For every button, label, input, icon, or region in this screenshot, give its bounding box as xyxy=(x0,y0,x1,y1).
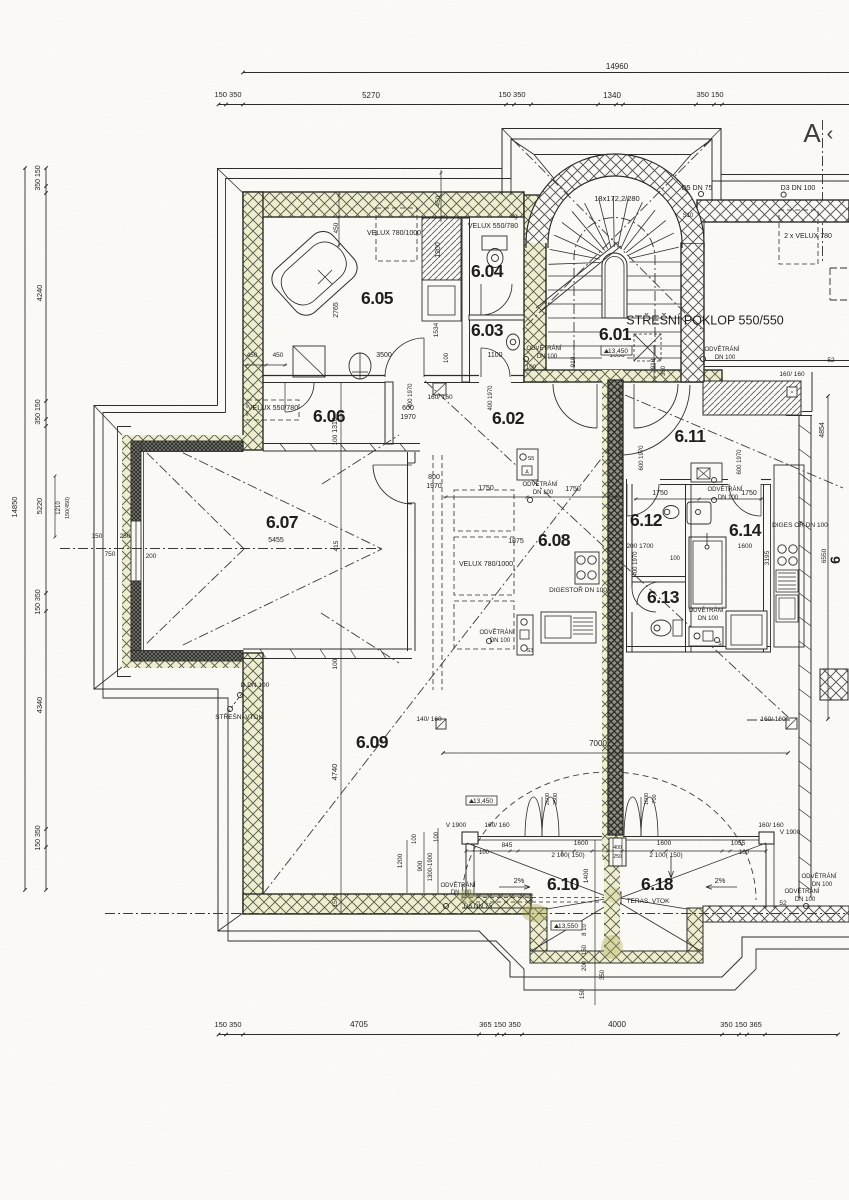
wall hatched stair bottom band xyxy=(524,370,722,382)
misc vent circles xyxy=(523,356,528,361)
wall hatched west band 6.09 xyxy=(243,653,263,913)
terrace drain box xyxy=(611,892,621,904)
wall right block east xyxy=(798,415,800,898)
door 6.14 xyxy=(729,484,761,516)
wall 6.06 east xyxy=(385,382,393,444)
french door arcs right xyxy=(624,797,658,837)
door 6.13 xyxy=(632,588,656,612)
level boxes xyxy=(601,346,632,355)
wall cluster top xyxy=(660,479,728,481)
velux dashed 2x right top xyxy=(779,210,818,264)
dimension line left segments xyxy=(45,168,47,890)
wc 6.04 xyxy=(482,236,507,250)
wall cluster west xyxy=(626,479,628,652)
vent box S3 xyxy=(517,615,533,655)
washbasin 6.12/6.14 xyxy=(687,502,711,524)
wall 6.11 top hatched xyxy=(703,381,801,415)
roof window box 140/160 right xyxy=(786,718,797,729)
terrace post left xyxy=(462,832,478,844)
bay wall dark bottom xyxy=(131,651,243,662)
streshni vtok symbol xyxy=(228,692,243,712)
velux dashed 6.05 xyxy=(376,208,417,261)
arrow down 6.18 xyxy=(669,856,674,878)
door 6.03 to hall xyxy=(481,348,510,377)
door 6.12/6.13 wall xyxy=(637,582,660,605)
door 6.04 xyxy=(481,284,512,315)
roof hip 6.07 large chevron xyxy=(183,453,382,549)
wall 6.05/6.04 xyxy=(462,218,470,382)
terrace side walls xyxy=(465,844,467,896)
terrace slope diagonals xyxy=(467,843,611,898)
stair enclosure arch hatched wall xyxy=(526,154,704,243)
dim line hall 1750 xyxy=(443,496,619,498)
wall hatched top band xyxy=(243,192,524,217)
roof hip 6.07 corner stubs xyxy=(322,435,399,484)
bay wall dark top xyxy=(131,441,243,452)
wall 6.07 east xyxy=(407,452,409,651)
shower tray 6.05 bottom xyxy=(293,346,325,377)
right vertical dim xyxy=(827,396,829,719)
wall 6.12/6.13 xyxy=(632,576,685,578)
window dim arrows left of terrace xyxy=(406,840,408,893)
wc 6.13 xyxy=(651,620,671,636)
stair treads radial xyxy=(549,263,600,265)
wall 6.06/6.07 horizontal xyxy=(263,443,420,445)
terrace dim line xyxy=(466,850,766,852)
stair walking line dash-dot xyxy=(574,218,655,379)
roof eave outline outer xyxy=(218,129,849,406)
kitchen rack right xyxy=(776,570,798,592)
roof window box 160/160 hall xyxy=(433,383,446,395)
bay inner face line xyxy=(143,452,145,650)
roof hip long diagonal SW-NE xyxy=(263,450,608,894)
door corridor right xyxy=(634,384,678,428)
kitchen sink island xyxy=(726,611,767,649)
wall hatched bottom band 6.09 xyxy=(243,894,531,914)
central wall dark band xyxy=(608,380,623,835)
wall 6.14 east xyxy=(763,484,765,652)
roof line right bottom xyxy=(747,719,790,721)
roof hip long diagonal NW-SE xyxy=(425,381,788,717)
wc 6.03 xyxy=(507,334,520,350)
dim910 vertical lines xyxy=(573,345,575,370)
kitchen counter right xyxy=(774,465,804,647)
vent box 6.13 xyxy=(689,627,723,646)
kitchen hob right xyxy=(778,545,786,553)
wall 6.04/6.03 xyxy=(469,315,524,320)
door 6.12 xyxy=(627,484,659,516)
wall hatched top right band xyxy=(697,200,849,222)
bay yellow halo xyxy=(122,435,131,668)
dimension line bottom xyxy=(218,1034,838,1036)
stair newel xyxy=(602,253,627,318)
dimension line overall 14960 top xyxy=(243,72,849,74)
bay wall dark left upper xyxy=(131,441,141,521)
bay fascia line xyxy=(118,427,132,677)
bidet 6.05 xyxy=(349,353,371,379)
terrace dim line x595 xyxy=(594,840,596,1005)
washbasin 6.05 xyxy=(422,280,461,321)
wall 6.07 south xyxy=(243,648,412,650)
terrace west wall hatched xyxy=(530,908,547,951)
wall hatched left band xyxy=(243,192,263,450)
door 6.07 xyxy=(373,465,412,504)
door 6.06 xyxy=(285,383,314,412)
bathtub corner 6.05 xyxy=(266,226,363,321)
slope arrows 2 percent xyxy=(499,885,530,889)
dim line rooms 1750 right xyxy=(634,498,763,500)
central wall stub xyxy=(609,838,626,866)
terrace east wall hatched xyxy=(687,908,703,951)
poklop X box 6.01 xyxy=(634,334,661,361)
door corridor left of stair xyxy=(553,384,597,428)
roof hip right 6.11 xyxy=(625,395,843,488)
door 6.11 entry xyxy=(620,385,690,455)
roof hip dash-dot over stair xyxy=(513,140,702,330)
vent box 6.12-6.14 wall xyxy=(691,463,722,482)
wall 6.11 end step xyxy=(787,387,797,397)
bay window left xyxy=(131,521,141,581)
wall tub column west xyxy=(685,484,687,652)
dim vertical interior x341 xyxy=(340,383,342,912)
wc 6.12 xyxy=(663,506,679,519)
roof eave outline inner xyxy=(226,139,849,413)
roof ridge 6.07 center xyxy=(60,548,382,550)
bay wall dark left lower xyxy=(131,581,141,661)
wall cluster bottom xyxy=(626,646,771,648)
wall hatched stair east band xyxy=(681,243,704,382)
chimney hatched right xyxy=(820,669,848,700)
terrace drain lines xyxy=(614,866,616,950)
stair section line xyxy=(536,242,618,308)
stair block side walls xyxy=(501,168,503,195)
wall right room south xyxy=(704,360,849,362)
door 6.05 to hall xyxy=(385,338,424,377)
vent box S5 hall xyxy=(517,449,538,480)
stair block corner diagonals xyxy=(511,139,534,155)
wall hatched bottom right band xyxy=(703,906,849,922)
dim vertical 450 top band xyxy=(338,192,340,247)
velux dashed 6.06 xyxy=(247,400,299,420)
big dashed arc terrace xyxy=(462,772,756,900)
roof window box 140/160 left xyxy=(436,719,446,729)
dimension line overall left xyxy=(24,168,26,890)
kitchen oven 6.08 xyxy=(541,612,596,643)
wall hatched stair west band xyxy=(524,195,546,382)
dim line 450 450 in 6.05 xyxy=(245,364,287,366)
french door arcs left xyxy=(525,797,559,837)
wall bathroom block bottom xyxy=(263,375,385,377)
kitchen sink right xyxy=(776,595,798,622)
central wall yellow halo xyxy=(602,370,623,860)
kitchen hob 6.08 xyxy=(575,552,599,584)
bay window dim line xyxy=(54,476,56,537)
terrace bottom wall hatched xyxy=(530,951,703,963)
section dash-dot bottom xyxy=(105,913,845,915)
terrace drain channel dashed xyxy=(462,897,608,899)
section line dash-dot right xyxy=(822,120,824,262)
scan smudges xyxy=(522,904,548,922)
velux dashed rects 6.08 xyxy=(454,490,514,531)
terrace top edge xyxy=(462,836,774,838)
vertical dashed lines hall xyxy=(432,455,434,690)
eave corner mitres xyxy=(218,169,244,194)
stair treads side flights xyxy=(548,275,602,277)
terrace post right xyxy=(759,832,774,844)
dim line 7000 xyxy=(443,752,788,754)
bathtub 6.14 xyxy=(689,537,726,608)
dimension line top segments xyxy=(218,104,849,106)
roof hip 6.07 small chevron xyxy=(147,453,244,549)
shower column 6.05 xyxy=(422,218,461,280)
